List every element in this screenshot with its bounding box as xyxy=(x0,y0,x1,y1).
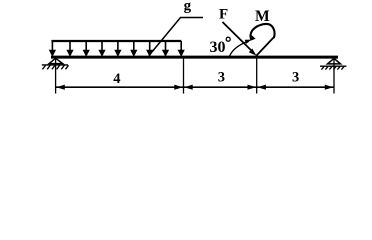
right support (roller) xyxy=(328,58,341,64)
right support hatching xyxy=(321,67,344,70)
force F arrowhead xyxy=(249,49,257,56)
distributed load top bar xyxy=(51,40,181,42)
dim arrowhead right of segment 3a xyxy=(248,85,257,90)
degree symbol xyxy=(226,37,230,41)
distributed load arrows xyxy=(50,41,184,56)
angle arc arrowhead xyxy=(245,40,252,44)
svg-text:3: 3 xyxy=(218,70,225,86)
30 degree angle arc xyxy=(230,42,248,57)
force F line xyxy=(223,22,252,51)
left support hatching xyxy=(43,65,69,69)
extension line at F xyxy=(256,59,258,94)
svg-text:30: 30 xyxy=(210,39,226,56)
svg-text:F: F xyxy=(219,6,228,22)
dim arrowhead left of segment 3b xyxy=(257,85,266,90)
svg-text:3: 3 xyxy=(292,70,299,86)
svg-text:4: 4 xyxy=(113,71,120,87)
moment M tail line xyxy=(256,37,274,56)
moment M arc loop xyxy=(250,24,274,40)
beam xyxy=(51,56,338,59)
dim arrowhead left of segment 3a xyxy=(184,85,193,90)
extension line right xyxy=(333,58,335,94)
left support (pin) xyxy=(49,58,63,63)
svg-text:M: M xyxy=(255,8,270,25)
left support ground line xyxy=(42,64,68,66)
svg-text:g: g xyxy=(184,0,192,14)
leader line to label g xyxy=(149,18,203,56)
dimension line xyxy=(56,86,334,88)
dim arrowhead right of segment 4 xyxy=(174,85,183,90)
right support ground line xyxy=(320,65,346,67)
dim arrowhead left of segment 4 xyxy=(56,85,65,90)
dim arrowhead right of segment 3b xyxy=(325,85,334,90)
moment M arrowhead xyxy=(250,35,256,41)
extension line left xyxy=(55,58,57,94)
extension line at load end xyxy=(183,59,185,94)
